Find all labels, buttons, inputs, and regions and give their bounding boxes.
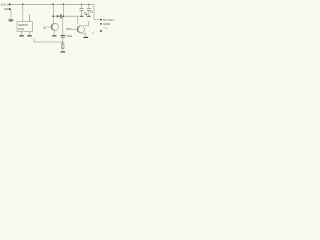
wire output corner bbox=[94, 4, 100, 19]
stray mark bbox=[93, 33, 94, 34]
node extra bullet bbox=[100, 30, 102, 32]
wire to Q2 collector bbox=[77, 16, 79, 24]
ground G4 bbox=[52, 35, 57, 36]
ground G1 bbox=[8, 20, 13, 21]
node OUT bullet bbox=[100, 19, 102, 21]
wire Q1 emitter bbox=[53, 30, 55, 35]
svg-text:GND: GND bbox=[103, 22, 111, 26]
diode D1 bbox=[57, 15, 61, 18]
ground G3 bbox=[27, 35, 32, 36]
wire gnd drop bbox=[10, 9, 12, 19]
node E junction bbox=[63, 15, 65, 17]
wire Q2 emitter bbox=[80, 33, 86, 37]
node G junction bbox=[81, 4, 82, 5]
resistor R3 bbox=[62, 44, 64, 49]
wire bottom link bbox=[34, 39, 63, 43]
wire pin5 bbox=[29, 32, 31, 36]
IC U1 box bbox=[17, 22, 33, 32]
terminal dot 12V bbox=[9, 3, 11, 5]
wire drop B bbox=[52, 4, 54, 23]
node GND bullet bbox=[100, 23, 102, 25]
capacitor C3 bbox=[60, 35, 65, 36]
label C2 value mark bbox=[85, 14, 87, 15]
node C junction bbox=[63, 3, 65, 5]
capacitor C1 bbox=[81, 4, 83, 8]
wire C3 lower bbox=[62, 38, 64, 51]
wire stub pin bbox=[29, 15, 31, 22]
svg-text:Q1: Q1 bbox=[43, 25, 47, 29]
node A junction bbox=[22, 3, 24, 5]
wire node line bbox=[53, 15, 78, 17]
faint note bbox=[103, 27, 109, 30]
transistor Q1 bbox=[51, 23, 58, 30]
ground G5 bbox=[61, 51, 66, 52]
capacitor C2 bbox=[88, 4, 90, 8]
svg-text:12V IN: 12V IN bbox=[1, 3, 11, 7]
svg-text:10uF: 10uF bbox=[67, 35, 73, 38]
node B junction bbox=[52, 3, 54, 5]
wire C lower bbox=[62, 16, 64, 35]
transistor Q2 bbox=[77, 26, 84, 33]
node F junction bbox=[62, 41, 63, 42]
ground G2 bbox=[19, 35, 24, 36]
background bbox=[0, 0, 120, 59]
wire pin4 bbox=[21, 32, 23, 36]
ground G6 bbox=[84, 37, 89, 38]
wire Q2 collector top bbox=[84, 25, 89, 27]
wire drop C bbox=[62, 4, 64, 16]
node D junction bbox=[52, 15, 54, 17]
ground G7 bbox=[80, 15, 84, 18]
node H junction bbox=[88, 4, 89, 5]
terminal dot GND bbox=[9, 8, 11, 10]
ground G8 bbox=[87, 15, 91, 18]
svg-text:BC5: BC5 bbox=[67, 27, 73, 31]
svg-text:55N: 55N bbox=[18, 27, 24, 31]
wire to IC bbox=[22, 4, 24, 21]
wire top rail bbox=[11, 3, 94, 5]
